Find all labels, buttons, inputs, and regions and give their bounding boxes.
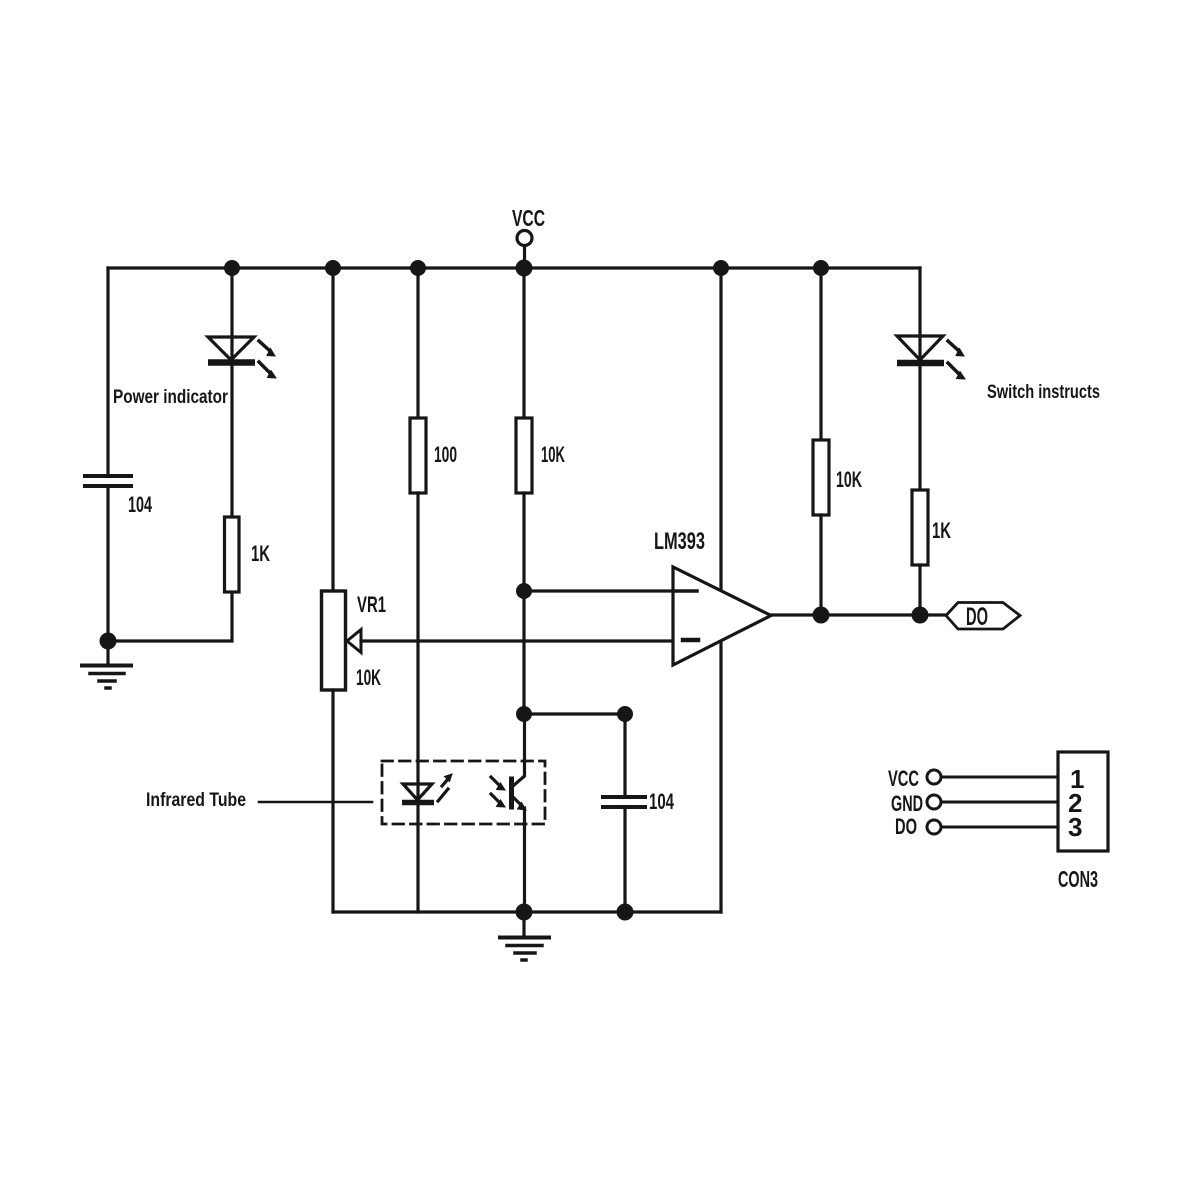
svg-text:100: 100 [434, 442, 457, 467]
net flag DO [946, 603, 1020, 630]
wire R5 bottom to output [918, 565, 921, 615]
wire node B to C2 top [524, 712, 625, 715]
svg-text:LM393: LM393 [654, 528, 705, 555]
svg-text:104: 104 [649, 789, 675, 814]
junction rail D1 [224, 260, 240, 276]
wire Infrared Tube pointer [259, 801, 372, 804]
wire LED2 to R5 [918, 363, 921, 490]
resistor R2 100 [410, 418, 426, 493]
wire node A down to node B [522, 591, 525, 714]
wire plus input [524, 589, 697, 592]
op-amp U1 LM393 [673, 567, 771, 665]
wire VR1 bottom to rail [331, 690, 334, 912]
junction rail U1 column [713, 260, 729, 276]
resistor R3 10K mid [516, 418, 532, 493]
node output junction R5 [912, 607, 929, 624]
svg-text:GND: GND [891, 791, 923, 816]
IR tube dashed box [382, 761, 545, 824]
svg-text:10K: 10K [356, 665, 381, 690]
junction rail R2 [410, 260, 426, 276]
node output junction R4 [813, 607, 830, 624]
ground left [82, 641, 131, 688]
wire output [771, 613, 946, 616]
potentiometer VR1 body [322, 591, 346, 690]
svg-text:104: 104 [128, 492, 152, 517]
capacitor C2 104 mid [603, 714, 645, 912]
LED D2 switch instructs [897, 336, 965, 379]
wire R2 bottom down through IR LED to bottom rail [416, 493, 419, 912]
node bottom junction Q1 [516, 904, 533, 921]
svg-text:1K: 1K [251, 541, 270, 566]
VCC terminal [517, 231, 532, 269]
node ground-left junction [100, 633, 117, 650]
wire R3 branch top [522, 268, 525, 418]
wire left drop upper (rail to capacitor) [106, 268, 109, 474]
ground bottom [500, 912, 549, 960]
wire LED1 branch top [230, 268, 233, 337]
svg-text:Switch instructs: Switch instructs [987, 382, 1100, 403]
wire R4 branch top [819, 268, 822, 440]
svg-text:VR1: VR1 [357, 592, 386, 617]
wire top power rail [108, 266, 920, 269]
wire R4 bottom to output [819, 515, 822, 615]
svg-text:DO: DO [895, 814, 917, 839]
pin minus dash [683, 638, 698, 643]
wire right drop (rail corner to LED2) [918, 268, 921, 336]
terminal VCC CON3 [927, 770, 1058, 784]
wire LM393 power column [719, 268, 722, 912]
resistor R4 10K right [813, 440, 829, 515]
svg-text:Infrared Tube: Infrared Tube [146, 790, 246, 811]
junction rail R4 [813, 260, 829, 276]
pin plus dash [675, 589, 697, 593]
junction rail VCC [516, 260, 533, 277]
svg-text:3: 3 [1068, 812, 1082, 842]
svg-text:10K: 10K [836, 467, 862, 492]
node A junction (plus input tap) [516, 583, 532, 599]
wire VR1 branch top [331, 268, 334, 591]
svg-text:10K: 10K [541, 442, 565, 467]
svg-text:1K: 1K [932, 518, 951, 543]
wire bottom rail [333, 910, 721, 913]
capacitor 104 left [85, 476, 131, 486]
node C2 top junction [617, 706, 633, 722]
wire LED1 to R1 [230, 363, 233, 517]
LED D1 power indicator [208, 337, 276, 378]
terminal GND CON3 [927, 795, 1058, 809]
IR emitter LED D3 [402, 774, 452, 803]
phototransistor Q1 [491, 714, 526, 912]
wire left drop lower (capacitor to ground node) [106, 486, 109, 641]
wire R2 branch top [416, 268, 419, 418]
resistor R1 1K left [225, 517, 240, 592]
junction rail VR1 [325, 260, 341, 276]
svg-text:VCC: VCC [888, 766, 919, 791]
wire bottom-left (ground node to 1K) [108, 592, 232, 641]
resistor R5 1K right [912, 490, 928, 565]
wire R3 bottom to node A [522, 493, 525, 591]
svg-text:DO: DO [966, 603, 988, 631]
svg-text:VCC: VCC [512, 205, 545, 231]
svg-text:CON3: CON3 [1058, 866, 1098, 892]
connector CON3 box [1058, 752, 1108, 851]
svg-text:Power indicator: Power indicator [113, 387, 228, 408]
terminal DO CON3 [927, 820, 1058, 834]
VR1 wiper arrow [347, 630, 673, 653]
node B junction (collector tap) [516, 706, 532, 722]
node bottom junction C2 [617, 904, 634, 921]
